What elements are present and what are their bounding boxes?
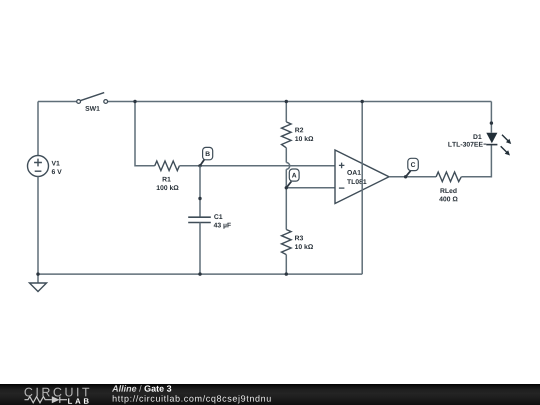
value 400 Ohm	[439, 197, 457, 202]
wire node B to op-amp + input	[200, 165, 335, 167]
junction dot top rail / R2	[285, 100, 288, 103]
wire V1 bottom lead	[37, 177, 39, 275]
junction dot node B	[198, 164, 201, 167]
label OA1	[347, 170, 361, 175]
junction dot ground / bottom rail	[36, 272, 39, 275]
wire top rail right (SW1 to LED corner)	[108, 101, 492, 103]
ground	[30, 274, 47, 291]
value 43 uF	[214, 223, 231, 229]
logo wordmark LAB	[68, 398, 89, 403]
junction dot top rail / R1 branch	[133, 100, 136, 103]
wire bottom rail	[38, 273, 362, 275]
wire R2 top lead	[285, 102, 287, 122]
footer title Alline / Gate 3	[112, 385, 136, 392]
op-amp OA1 TL081	[335, 150, 389, 204]
junction dot node C	[404, 175, 407, 178]
wire hop down to node A	[285, 169, 287, 229]
value 100 kOhm	[157, 185, 179, 190]
value TL081	[347, 179, 366, 184]
voltage source V1 6 V	[28, 156, 62, 177]
logo diode cathode bar	[59, 397, 61, 403]
resistor R3 10 kΩ	[282, 230, 314, 255]
logo diode triangle	[52, 396, 60, 403]
wire node B down to C1	[199, 166, 201, 217]
wire R3 bottom lead	[285, 255, 287, 275]
capacitor C1 43 µF	[188, 214, 231, 229]
wire LED anode to top rail	[490, 102, 492, 133]
wire V1 top lead	[37, 102, 39, 156]
resistor RLed 400 Ω	[436, 172, 461, 201]
logo resistor zigzag	[25, 397, 68, 403]
resistor R1 100 kΩ	[155, 161, 180, 190]
wire op-amp output	[389, 176, 436, 178]
value 10 kOhm (R2)	[295, 136, 313, 141]
wire R1 to node B	[179, 165, 200, 167]
junction dot top rail / op-amp power	[361, 100, 364, 103]
wire hop over + input wire	[286, 163, 289, 170]
wire node A to op-amp - input	[286, 187, 335, 189]
switch SW1	[77, 93, 108, 111]
node A	[286, 169, 299, 188]
wire R1 branch from top rail	[135, 102, 155, 166]
wire op-amp power rail vertical	[361, 102, 363, 275]
label C1	[214, 214, 222, 219]
value LTL-307EE	[448, 142, 482, 147]
wire R2 bottom to hop	[285, 148, 287, 163]
CircuitLab logo wordmark CIRCUIT	[25, 388, 90, 397]
label RLed	[440, 188, 456, 193]
label V1	[52, 161, 60, 166]
node C	[406, 158, 419, 177]
junction dot above LED	[490, 121, 493, 124]
wire C1 bottom lead	[199, 223, 201, 275]
label R3	[295, 236, 303, 241]
label D1	[473, 134, 481, 139]
label R2	[295, 128, 303, 133]
value 10 kOhm (R3)	[295, 244, 313, 249]
LED D1 LTL-307EE	[448, 133, 511, 156]
junction dot C1 / bottom rail	[198, 272, 201, 275]
value 6 V	[52, 169, 62, 174]
junction dot above C1	[198, 197, 201, 200]
label SW1	[85, 106, 99, 111]
junction dot R3 / bottom rail	[285, 272, 288, 275]
footer url	[113, 395, 271, 403]
footer bar	[0, 384, 540, 405]
wire top rail left (V1 to SW1)	[38, 101, 77, 103]
junction dot node A	[285, 186, 288, 189]
node B	[200, 147, 213, 165]
label R1	[163, 177, 171, 182]
resistor R2 10 kΩ	[282, 122, 314, 148]
wire RLed to LED corner	[461, 145, 491, 177]
